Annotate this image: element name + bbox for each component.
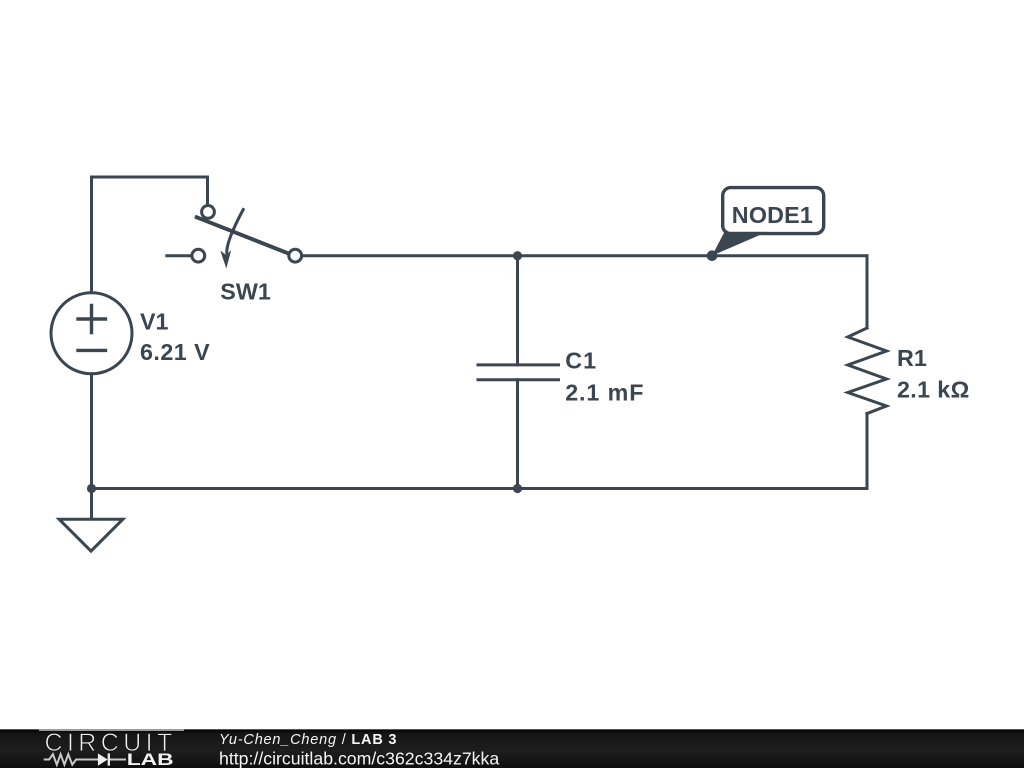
svg-text:SW1: SW1 xyxy=(220,278,271,304)
junction at ground xyxy=(87,484,96,493)
R1 bottom lead wire xyxy=(866,414,869,489)
svg-text:2.1 kΩ: 2.1 kΩ xyxy=(897,376,970,402)
ground triangle xyxy=(59,519,123,551)
switch actuation arc xyxy=(227,210,243,254)
svg-text:NODE1: NODE1 xyxy=(732,202,813,228)
svg-text:Yu-Chen_Cheng / LAB 3: Yu-Chen_Cheng / LAB 3 xyxy=(219,732,397,748)
ground xyxy=(59,489,123,552)
capacitor C1 xyxy=(478,256,559,489)
switch top terminal xyxy=(202,206,215,219)
svg-text:V1: V1 xyxy=(140,308,169,334)
wire from V1 top to switch top terminal xyxy=(92,177,208,293)
logo diode triangle xyxy=(98,753,108,765)
wire: main top rail xyxy=(302,254,867,257)
resistor R1 xyxy=(848,256,887,489)
V1 minus mark xyxy=(78,349,106,352)
C1 bottom plate xyxy=(478,378,559,381)
switch SW1 xyxy=(167,206,302,269)
ground stem wire xyxy=(90,489,93,520)
svg-text:R1: R1 xyxy=(897,345,927,371)
wire stub at switch left throw xyxy=(167,254,192,257)
CircuitLab logo plate highlight xyxy=(39,729,184,731)
svg-text:C1: C1 xyxy=(565,347,597,373)
C1 top plate xyxy=(478,363,559,366)
NODE1 callout box xyxy=(723,188,824,234)
C1 bottom lead wire xyxy=(516,380,519,489)
logo squiggle: resistor + diode xyxy=(44,753,126,765)
junction at C1 top xyxy=(513,251,522,260)
svg-text:6.21 V: 6.21 V xyxy=(140,339,210,365)
node dot NODE1 xyxy=(707,250,718,261)
V1 plus mark xyxy=(78,306,106,333)
switch right terminal xyxy=(289,249,302,262)
wire: bottom rail xyxy=(92,487,868,490)
R1 top lead wire xyxy=(866,256,869,328)
voltage source V1 xyxy=(51,293,132,374)
footer bar xyxy=(0,729,1024,768)
wire from V1 bottom to ground junction xyxy=(90,374,93,489)
switch blade xyxy=(197,217,289,253)
svg-text:2.1 mF: 2.1 mF xyxy=(565,379,644,405)
switch left terminal xyxy=(192,249,205,262)
node NODE1 flag xyxy=(707,188,824,261)
NODE1 callout pointer xyxy=(712,232,767,256)
C1 top lead wire xyxy=(516,256,519,365)
R1 zigzag body xyxy=(848,328,887,414)
svg-text:http://circuitlab.com/c362c334: http://circuitlab.com/c362c334z7kka xyxy=(219,749,499,768)
junction at C1 bottom xyxy=(513,484,522,493)
V1 body circle xyxy=(51,293,132,374)
svg-text:LAB: LAB xyxy=(127,751,174,768)
switch arrowhead xyxy=(220,250,231,268)
